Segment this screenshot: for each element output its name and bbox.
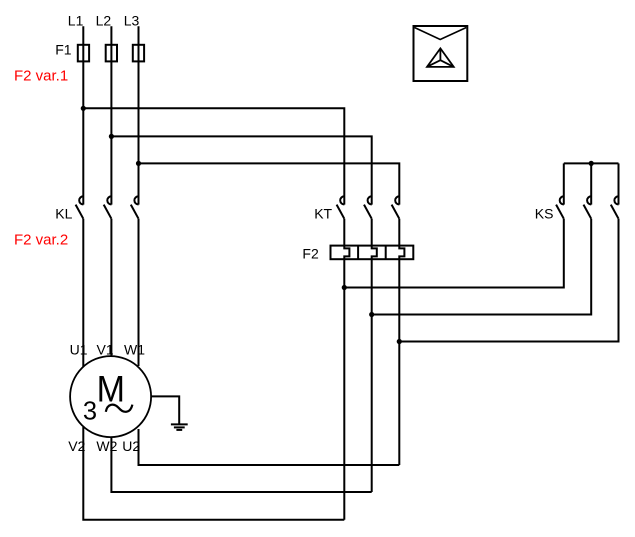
svg-text:3: 3 [83,398,97,426]
svg-text:L2: L2 [96,12,112,28]
svg-text:F1: F1 [55,42,72,58]
svg-text:L1: L1 [68,12,84,28]
svg-text:KS: KS [535,205,554,221]
svg-text:KT: KT [314,205,332,221]
svg-text:KL: KL [55,205,72,221]
svg-text:V1: V1 [97,341,114,357]
svg-text:U2: U2 [122,438,140,454]
svg-text:F2: F2 [302,245,319,261]
svg-text:L3: L3 [124,12,140,28]
svg-text:W1: W1 [124,341,145,357]
svg-text:U1: U1 [70,341,88,357]
svg-text:F2 var.2: F2 var.2 [14,232,68,249]
svg-text:F2 var.1: F2 var.1 [14,68,68,85]
svg-text:M: M [97,368,125,410]
svg-text:W2: W2 [96,438,117,454]
svg-text:V2: V2 [68,438,85,454]
